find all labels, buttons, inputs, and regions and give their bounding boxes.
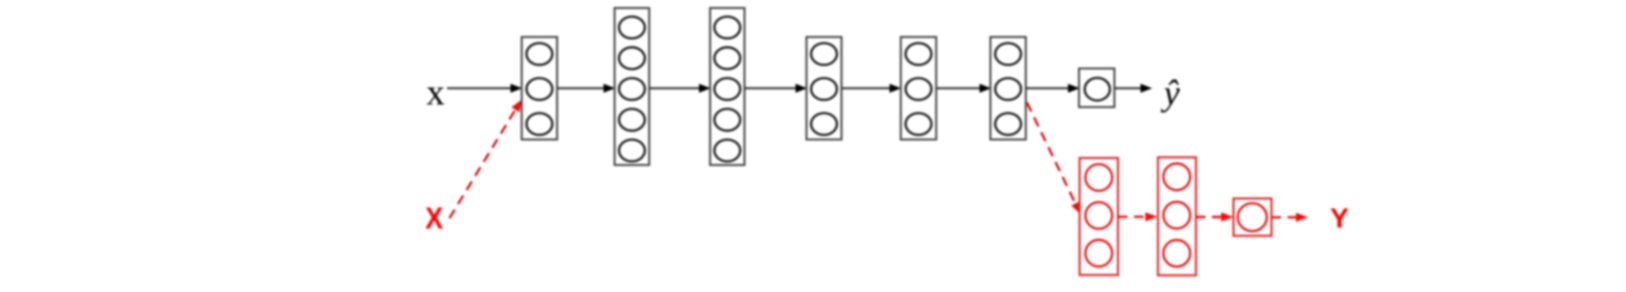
neuron L3-4 — [714, 109, 740, 131]
layer L2 rect (5 neurons) — [615, 8, 650, 165]
neuron L3-3 — [714, 78, 740, 100]
layer L6 rect (3 neurons) — [990, 37, 1025, 140]
red output neuron — [1238, 203, 1267, 231]
red output label Y — [1330, 202, 1349, 233]
wire x to layer1 with arrowhead — [447, 84, 522, 93]
svg-text:ŷ: ŷ — [1161, 73, 1180, 113]
red neuron R2-3 — [1163, 240, 1190, 267]
neuron L2-5 — [619, 140, 645, 162]
red dashed wire R2 to red output box with arrowhead — [1196, 212, 1233, 221]
svg-text:x: x — [426, 73, 445, 114]
output label y-hat — [1161, 73, 1180, 113]
output box (1 neuron) — [1079, 69, 1114, 108]
wire L4 to L5 with arrowhead — [842, 84, 902, 93]
output neuron — [1085, 78, 1110, 101]
red layer R1 rect (3 neurons) — [1080, 158, 1118, 275]
neuron L4-2 — [811, 78, 837, 100]
neuron L6-1 — [995, 43, 1021, 65]
neuron L3-5 — [714, 140, 740, 162]
wire L6 to output box with arrowhead — [1026, 84, 1080, 93]
red neuron R1-2 — [1085, 202, 1112, 229]
svg-text:X: X — [425, 202, 443, 236]
layer L4 rect (3 neurons) — [807, 37, 842, 140]
red neuron R1-1 — [1085, 164, 1112, 191]
neuron L3-2 — [714, 47, 740, 69]
layer L5 rect (3 neurons) — [901, 37, 936, 140]
neuron L5-1 — [906, 43, 932, 65]
layer L1 rect (3 neurons) — [522, 37, 557, 140]
neuron L4-1 — [811, 43, 837, 65]
wire L2 to L3 with arrowhead — [649, 84, 711, 93]
red layer R2 rect (3 neurons) — [1158, 157, 1196, 275]
input label x — [426, 73, 445, 114]
neuron L1-1 — [527, 43, 553, 65]
wire output box to y-hat with arrowhead — [1114, 84, 1152, 93]
neuron L1-3 — [527, 113, 553, 135]
neuron L2-3 — [619, 78, 645, 100]
layer L3 rect (5 neurons) — [710, 8, 744, 165]
red dashed wire R1 to R2 with arrowhead — [1118, 212, 1158, 221]
neuron L4-3 — [811, 113, 837, 135]
neuron L6-2 — [995, 78, 1021, 100]
red neuron R2-1 — [1163, 164, 1190, 191]
red neuron R1-3 — [1085, 240, 1112, 267]
neuron L3-1 — [714, 17, 740, 39]
neuron L2-4 — [619, 109, 645, 131]
red dashed wire red output box to Y with arrowhead — [1272, 213, 1309, 222]
svg-text:Y: Y — [1330, 202, 1349, 233]
wire L1 to L2 with arrowhead — [557, 84, 615, 93]
red input label X — [425, 202, 443, 236]
neuron L6-3 — [995, 113, 1021, 135]
neuron L2-2 — [619, 47, 645, 69]
wire L3 to L4 with arrowhead — [745, 84, 808, 93]
red neuron R2-2 — [1163, 202, 1190, 229]
red dashed wire X to layer L1 with arrowhead — [450, 100, 522, 219]
neuron L1-2 — [527, 78, 553, 100]
red output box (1 neuron) — [1234, 199, 1272, 236]
neuron L2-1 — [619, 17, 645, 39]
red dashed wire L6 to red layer R1 with arrowhead — [1027, 103, 1081, 215]
neuron L5-3 — [906, 113, 932, 135]
neuron L5-2 — [906, 78, 932, 100]
wire L5 to L6 with arrowhead — [936, 84, 991, 93]
